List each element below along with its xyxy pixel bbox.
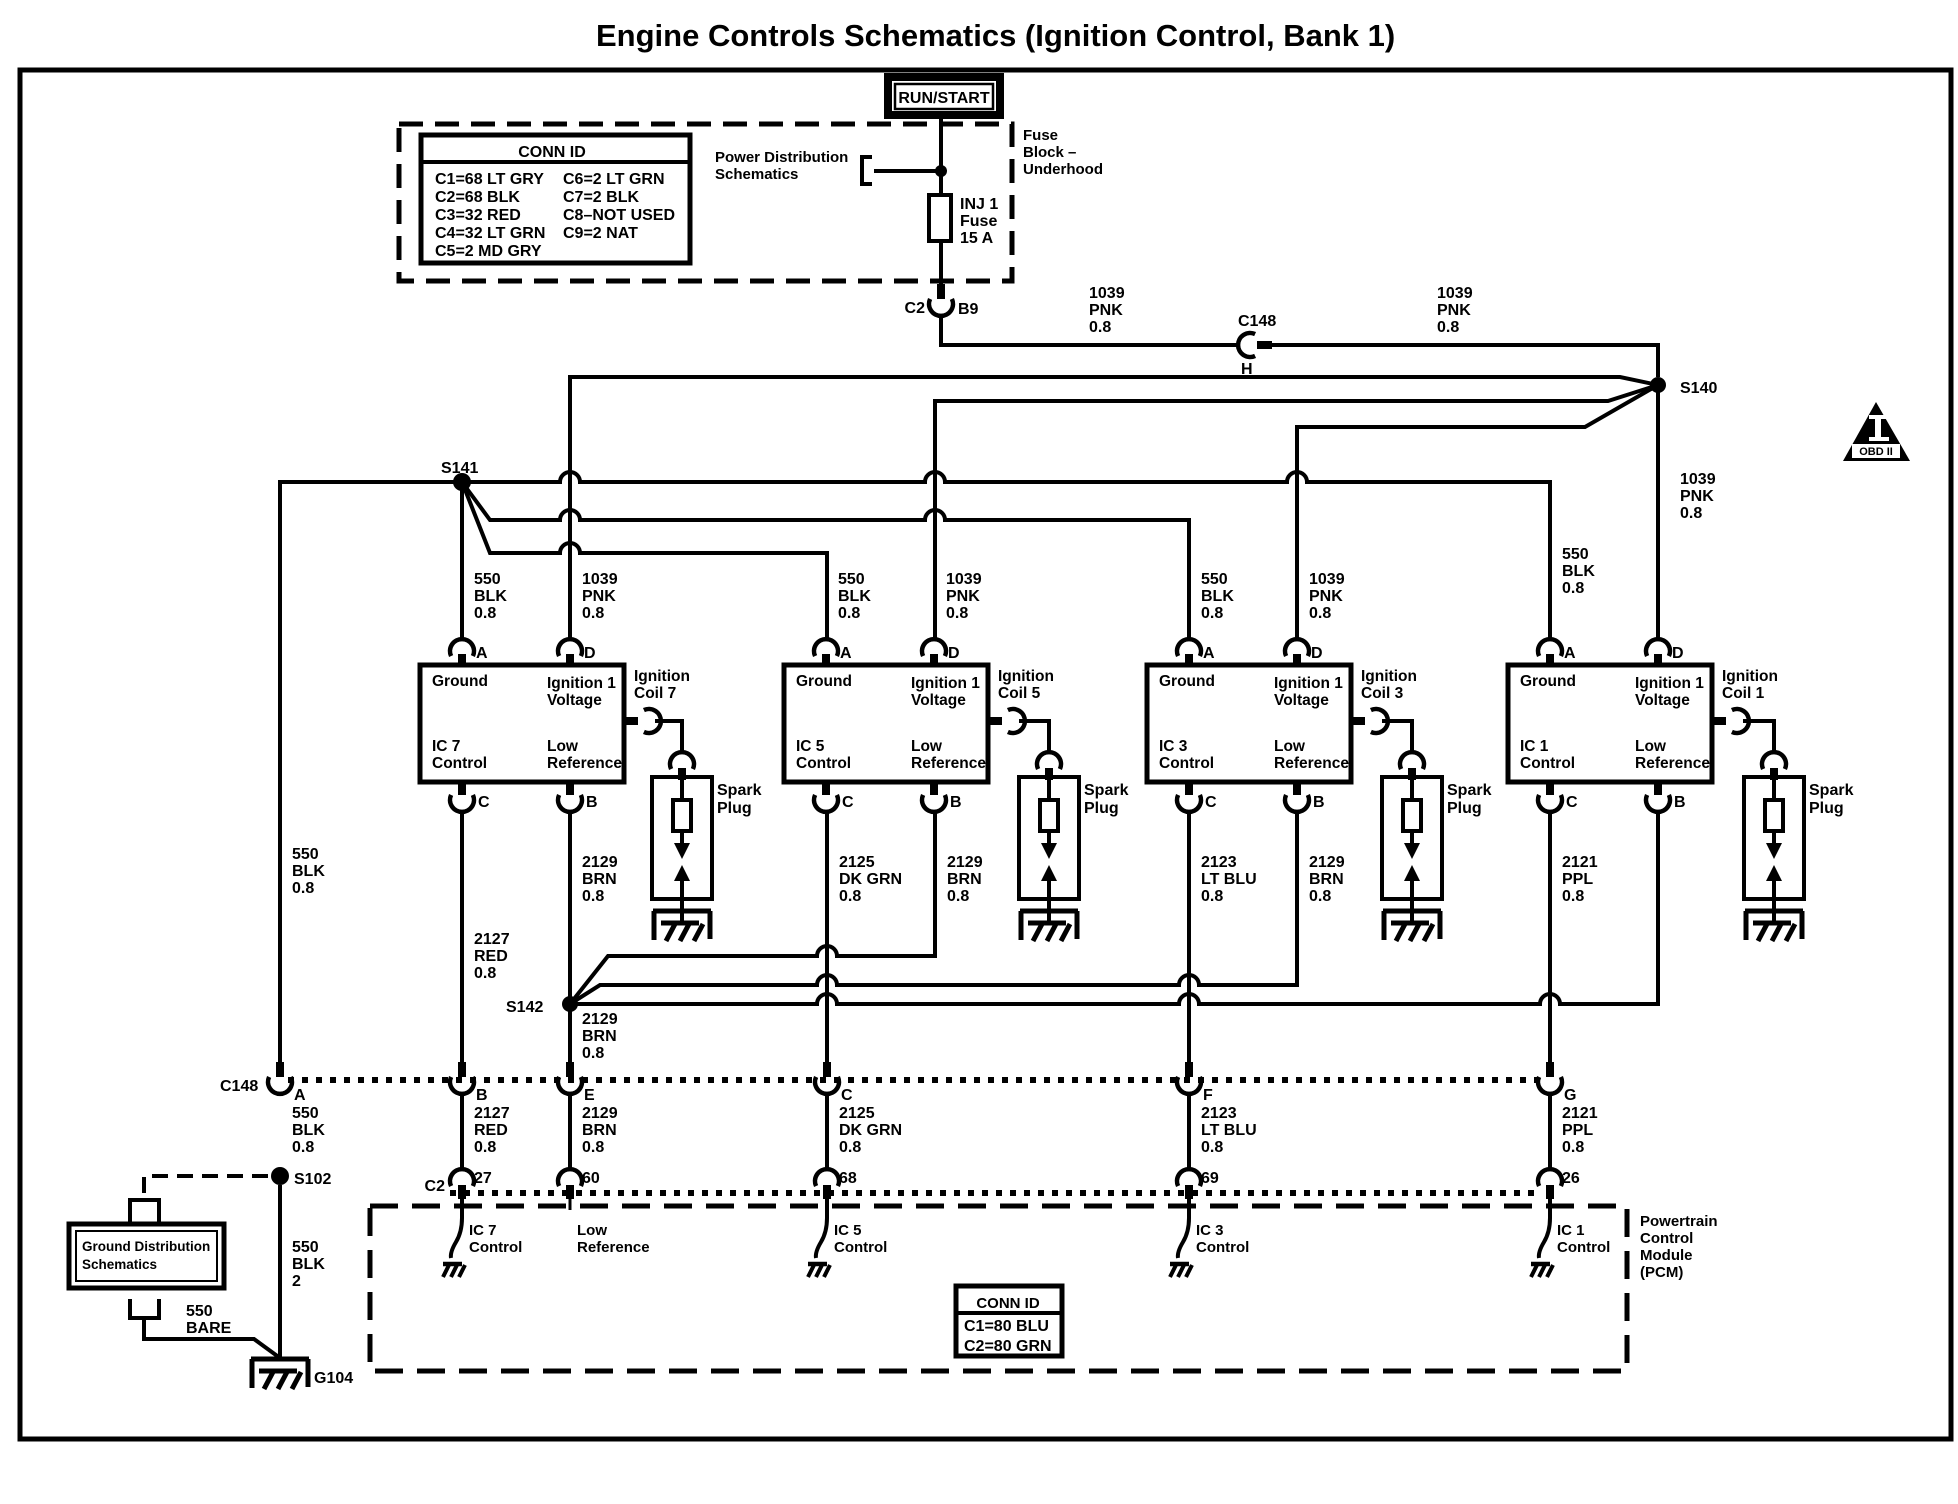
svg-text:0.8: 0.8 <box>474 605 496 622</box>
svg-text:BRN: BRN <box>1309 871 1344 888</box>
svg-text:Plug: Plug <box>1084 800 1119 817</box>
ignition coil module U7 (Ignition Coil 7) <box>420 665 624 782</box>
svg-text:B: B <box>586 794 598 811</box>
ground (spark plug 7) <box>653 911 711 941</box>
svg-text:C2=80 GRN: C2=80 GRN <box>964 1338 1052 1355</box>
svg-text:Reference: Reference <box>577 1239 650 1256</box>
svg-text:Coil 7: Coil 7 <box>634 685 676 702</box>
svg-text:C4=32 LT GRN: C4=32 LT GRN <box>435 225 545 242</box>
PCM pin 68 <box>815 1169 839 1186</box>
svg-text:Schematics: Schematics <box>82 1257 157 1272</box>
svg-text:0.8: 0.8 <box>839 1139 861 1156</box>
ground (IC 5 driver) <box>808 1264 830 1277</box>
svg-text:G: G <box>1564 1087 1576 1104</box>
svg-text:Voltage: Voltage <box>547 692 602 709</box>
svg-text:550: 550 <box>1201 571 1228 588</box>
svg-text:Ignition 1: Ignition 1 <box>1635 675 1704 692</box>
pin C of coil 7 <box>458 782 466 795</box>
wire 2129 BRN coil3 B to S142 <box>570 812 1297 1004</box>
svg-text:C5=2 MD GRY: C5=2 MD GRY <box>435 243 542 260</box>
svg-text:Control: Control <box>1159 755 1214 772</box>
svg-text:2121: 2121 <box>1562 1105 1598 1122</box>
svg-text:C2: C2 <box>905 300 926 317</box>
svg-text:0.8: 0.8 <box>1562 888 1584 905</box>
svg-text:Ignition: Ignition <box>1361 668 1417 685</box>
svg-text:C: C <box>478 794 490 811</box>
svg-text:PNK: PNK <box>1437 302 1471 319</box>
svg-text:Powertrain: Powertrain <box>1640 1213 1718 1230</box>
svg-text:C3=32 RED: C3=32 RED <box>435 207 521 224</box>
svg-text:Voltage: Voltage <box>911 692 966 709</box>
in-line connector C148 pin H <box>1238 333 1255 357</box>
svg-text:G104: G104 <box>314 1370 353 1387</box>
wire 550 BARE to G104 <box>144 1318 280 1358</box>
PCM pin 26 <box>1538 1169 1562 1186</box>
svg-text:PNK: PNK <box>1089 302 1123 319</box>
svg-text:(PCM): (PCM) <box>1640 1264 1683 1281</box>
svg-text:0.8: 0.8 <box>947 888 969 905</box>
svg-text:IC 1: IC 1 <box>1520 738 1549 755</box>
svg-text:Ground: Ground <box>796 673 852 690</box>
svg-text:C1=80 BLU: C1=80 BLU <box>964 1318 1049 1335</box>
svg-text:0.8: 0.8 <box>1437 319 1459 336</box>
svg-text:PNK: PNK <box>582 588 616 605</box>
svg-text:S140: S140 <box>1680 380 1717 397</box>
svg-text:Voltage: Voltage <box>1274 692 1329 709</box>
wire S141 to coil 5 ground <box>462 482 827 639</box>
svg-text:0.8: 0.8 <box>292 880 314 897</box>
svg-text:IC 5: IC 5 <box>796 738 825 755</box>
svg-text:0.8: 0.8 <box>946 605 968 622</box>
svg-text:C: C <box>1566 794 1578 811</box>
connector C148 pin G <box>1546 1062 1554 1077</box>
svg-text:Low: Low <box>1635 738 1667 755</box>
svg-text:IC 7: IC 7 <box>432 738 460 755</box>
connector C2 row of PCM (dotted) <box>450 1190 1538 1196</box>
svg-text:0.8: 0.8 <box>1309 605 1331 622</box>
svg-text:IC 3: IC 3 <box>1196 1222 1224 1239</box>
svg-text:2127: 2127 <box>474 931 510 948</box>
svg-text:0.8: 0.8 <box>582 605 604 622</box>
svg-text:BLK: BLK <box>292 863 325 880</box>
ground (IC 3 driver) <box>1170 1264 1192 1277</box>
wire 2125 DK GRN coil5 C to PCM <box>825 812 829 1062</box>
svg-text:Control: Control <box>432 755 487 772</box>
pin C of coil 3 <box>1185 782 1193 795</box>
svg-text:1039: 1039 <box>946 571 982 588</box>
dashed wire S102 to ground distribution schematics <box>144 1176 268 1198</box>
svg-text:Ignition 1: Ignition 1 <box>547 675 616 692</box>
wire 2129 BRN coil5 B to S142 <box>570 812 935 1004</box>
connector C148 pin F <box>1185 1062 1193 1077</box>
spark plug connector (coil 3) <box>1400 752 1424 769</box>
wire S140 to ignition coil 5 feed <box>935 385 1658 639</box>
svg-text:0.8: 0.8 <box>582 1045 604 1062</box>
svg-text:Reference: Reference <box>1274 755 1349 772</box>
pin B of coil 1 <box>1654 782 1662 795</box>
svg-text:D: D <box>1311 645 1323 662</box>
wire RUN/START to fuse <box>939 119 943 195</box>
svg-text:Coil 5: Coil 5 <box>998 685 1041 702</box>
ignition coil module U1 (Ignition Coil 1) <box>1508 665 1712 782</box>
svg-text:Plug: Plug <box>1447 800 1482 817</box>
svg-text:BLK: BLK <box>292 1122 325 1139</box>
svg-text:Low: Low <box>911 738 943 755</box>
fuse INJ 1 15A <box>929 195 951 241</box>
svg-text:2121: 2121 <box>1562 854 1598 871</box>
spark plug 1 <box>1744 777 1804 899</box>
pin A of coil 3 <box>1177 639 1201 656</box>
wire 2123 LT BLU coil3 C to PCM <box>1187 812 1191 1062</box>
pin B of coil 5 <box>930 782 938 795</box>
svg-text:C148: C148 <box>220 1078 258 1095</box>
svg-text:Module: Module <box>1640 1247 1693 1264</box>
svg-text:CONN ID: CONN ID <box>518 144 586 161</box>
ground (IC 1 driver) <box>1531 1264 1553 1277</box>
svg-text:0.8: 0.8 <box>582 888 604 905</box>
svg-text:A: A <box>1564 645 1576 662</box>
ground (spark plug 1) <box>1745 911 1803 941</box>
svg-text:0.8: 0.8 <box>839 888 861 905</box>
svg-text:Low: Low <box>547 738 579 755</box>
wire 2127 RED coil7 C to PCM <box>460 812 464 1062</box>
bracket to power distribution schematics <box>862 157 872 184</box>
svg-text:550: 550 <box>474 571 501 588</box>
svg-text:Ignition: Ignition <box>998 668 1054 685</box>
wire S141 to coil 1 ground (pin A) <box>462 472 1550 639</box>
coil 1 output connector <box>1712 717 1726 725</box>
pin D of coil 1 <box>1646 639 1670 656</box>
svg-text:C148: C148 <box>1238 313 1276 330</box>
svg-text:0.8: 0.8 <box>1201 1139 1223 1156</box>
svg-text:550: 550 <box>838 571 865 588</box>
ground (spark plug 5) <box>1020 911 1078 941</box>
svg-text:Control: Control <box>1520 755 1575 772</box>
svg-text:Ignition 1: Ignition 1 <box>1274 675 1343 692</box>
svg-text:BLK: BLK <box>292 1256 325 1273</box>
svg-text:LT BLU: LT BLU <box>1201 871 1257 888</box>
svg-text:Ground Distribution: Ground Distribution <box>82 1239 210 1254</box>
svg-text:Ignition 1: Ignition 1 <box>911 675 980 692</box>
svg-text:D: D <box>948 645 960 662</box>
svg-text:Reference: Reference <box>911 755 986 772</box>
svg-text:Ignition: Ignition <box>1722 668 1778 685</box>
svg-text:DK GRN: DK GRN <box>839 1122 902 1139</box>
svg-text:2129: 2129 <box>947 854 983 871</box>
svg-text:A: A <box>476 645 488 662</box>
svg-text:Control: Control <box>1196 1239 1249 1256</box>
Powertrain Control Module (PCM) dashed box <box>370 1206 1627 1371</box>
wire 2121 PPL coil1 C to PCM <box>1548 812 1552 1062</box>
coil 7 output connector <box>624 717 638 725</box>
svg-text:OBD II: OBD II <box>1859 446 1893 458</box>
svg-text:RUN/START: RUN/START <box>898 90 989 107</box>
svg-text:Control: Control <box>1557 1239 1610 1256</box>
svg-text:Low: Low <box>1274 738 1306 755</box>
svg-text:2125: 2125 <box>839 1105 875 1122</box>
wire coil 3 to spark plug <box>1382 721 1412 752</box>
wire 1039 PNK from C148 to S140 <box>1272 345 1658 377</box>
CONN ID table (PCM) <box>956 1286 1062 1356</box>
svg-text:Fuse: Fuse <box>960 213 997 230</box>
wire S141 to coil 7 ground <box>460 482 464 639</box>
svg-text:550: 550 <box>292 846 319 863</box>
svg-text:Spark: Spark <box>1447 782 1492 799</box>
coil 5 output connector <box>988 717 1002 725</box>
svg-text:Plug: Plug <box>1809 800 1844 817</box>
svg-text:Ground: Ground <box>1520 673 1576 690</box>
svg-text:BLK: BLK <box>838 588 871 605</box>
svg-text:Reference: Reference <box>547 755 622 772</box>
svg-text:S102: S102 <box>294 1171 331 1188</box>
svg-text:Ignition: Ignition <box>634 668 690 685</box>
wire coil 5 to spark plug <box>1019 721 1049 752</box>
Low Reference pin stub <box>569 1199 572 1210</box>
connector C148 pin E <box>566 1062 574 1077</box>
bracket to ground distribution schematics <box>130 1200 159 1223</box>
junction node at fuse feed <box>935 165 947 177</box>
svg-text:PNK: PNK <box>1680 488 1714 505</box>
ground G104 <box>251 1359 309 1389</box>
svg-text:0.8: 0.8 <box>292 1139 314 1156</box>
wire S141 to coil 3 ground <box>462 482 1189 639</box>
svg-text:2129: 2129 <box>582 1011 618 1028</box>
pin B of coil 3 <box>1293 782 1301 795</box>
svg-text:C1=68 LT GRY: C1=68 LT GRY <box>435 171 544 188</box>
pin D of coil 5 <box>922 639 946 656</box>
wire 1039 PNK from C2-B9 to C148 <box>941 316 1238 345</box>
wire S140 to ignition coil 3 feed <box>1297 385 1658 639</box>
wire 2129 BRN coil1 B to S142 <box>570 812 1658 1004</box>
svg-text:BRN: BRN <box>582 1028 617 1045</box>
svg-text:27: 27 <box>474 1170 492 1187</box>
svg-text:PNK: PNK <box>946 588 980 605</box>
CONN ID table (fuse block) <box>421 135 690 263</box>
svg-text:IC 5: IC 5 <box>834 1222 862 1239</box>
svg-text:C6=2 LT GRN: C6=2 LT GRN <box>563 171 665 188</box>
svg-text:A: A <box>840 645 852 662</box>
svg-text:RED: RED <box>474 1122 508 1139</box>
svg-text:60: 60 <box>582 1170 600 1187</box>
svg-text:BLK: BLK <box>474 588 507 605</box>
svg-text:26: 26 <box>1562 1170 1580 1187</box>
ground (spark plug 3) <box>1383 911 1441 941</box>
pin C of coil 1 <box>1546 782 1554 795</box>
svg-text:Underhood: Underhood <box>1023 161 1103 178</box>
connector C2/B9 pin <box>937 284 945 299</box>
connector C148 pin C <box>823 1062 831 1077</box>
PCM pin 27 <box>450 1169 474 1186</box>
svg-text:1039: 1039 <box>1309 571 1345 588</box>
pin C of coil 5 <box>822 782 830 795</box>
svg-text:C: C <box>1205 794 1217 811</box>
svg-text:IC 3: IC 3 <box>1159 738 1188 755</box>
wire coil 7 to spark plug <box>655 721 682 752</box>
svg-text:IC 7: IC 7 <box>469 1222 497 1239</box>
connector C148 row (dotted) <box>288 1077 1538 1083</box>
svg-text:Voltage: Voltage <box>1635 692 1690 709</box>
pin B of coil 7 <box>566 782 574 795</box>
svg-text:Spark: Spark <box>717 782 762 799</box>
pin A of coil 1 <box>1538 639 1562 656</box>
spark plug 7 <box>652 777 712 899</box>
Ground Distribution Schematics box <box>69 1224 224 1288</box>
svg-text:2129: 2129 <box>582 854 618 871</box>
svg-text:1039: 1039 <box>1089 285 1125 302</box>
svg-text:2127: 2127 <box>474 1105 510 1122</box>
svg-text:Control: Control <box>796 755 851 772</box>
svg-text:D: D <box>584 645 596 662</box>
svg-text:LT BLU: LT BLU <box>1201 1122 1257 1139</box>
svg-text:Schematics: Schematics <box>715 166 798 183</box>
svg-text:2: 2 <box>292 1273 301 1290</box>
wire S141 left to C148-A <box>280 482 462 1062</box>
svg-text:B: B <box>950 794 962 811</box>
fuse block dashed box (Fuse Block - Underhood) <box>399 124 1012 281</box>
svg-text:Reference: Reference <box>1635 755 1710 772</box>
svg-text:BRN: BRN <box>947 871 982 888</box>
svg-text:2123: 2123 <box>1201 854 1237 871</box>
IC 7 Control driver (transistor switch) <box>451 1199 462 1258</box>
svg-text:68: 68 <box>839 1170 857 1187</box>
wire 550 BLK 2 S102 to G104 <box>278 1185 282 1359</box>
ignition coil module U5 (Ignition Coil 5) <box>784 665 988 782</box>
spark plug connector (coil 5) <box>1037 752 1061 769</box>
wire power distribution branch <box>874 169 941 173</box>
splice S140 <box>1650 377 1666 393</box>
connector C148 pin A <box>276 1062 284 1077</box>
svg-text:BLK: BLK <box>1201 588 1234 605</box>
IC 1 Control driver (transistor switch) <box>1539 1199 1550 1258</box>
svg-text:BRN: BRN <box>582 1122 617 1139</box>
svg-text:Control: Control <box>1640 1230 1693 1247</box>
pin A of coil 7 <box>450 639 474 656</box>
svg-text:S142: S142 <box>506 999 543 1016</box>
IC 3 Control driver (transistor switch) <box>1178 1199 1189 1258</box>
svg-text:2129: 2129 <box>1309 854 1345 871</box>
svg-text:0.8: 0.8 <box>474 1139 496 1156</box>
svg-text:BRN: BRN <box>582 871 617 888</box>
svg-text:0.8: 0.8 <box>1562 1139 1584 1156</box>
svg-text:0.8: 0.8 <box>1680 505 1702 522</box>
wire fuse to connector C2 <box>939 241 943 284</box>
svg-text:0.8: 0.8 <box>1201 888 1223 905</box>
svg-text:1039: 1039 <box>582 571 618 588</box>
svg-text:0.8: 0.8 <box>1089 319 1111 336</box>
svg-text:0.8: 0.8 <box>838 605 860 622</box>
svg-text:CONN ID: CONN ID <box>976 1295 1040 1312</box>
svg-text:Low: Low <box>577 1222 607 1239</box>
bracket below ground distribution schematics <box>130 1299 159 1318</box>
spark plug 5 <box>1019 777 1079 899</box>
svg-text:15 A: 15 A <box>960 230 994 247</box>
svg-text:B: B <box>476 1087 488 1104</box>
svg-text:C7=2 BLK: C7=2 BLK <box>563 189 639 206</box>
ignition coil module U3 (Ignition Coil 3) <box>1147 665 1351 782</box>
svg-text:Ground: Ground <box>1159 673 1215 690</box>
PCM pin 69 <box>1177 1169 1201 1186</box>
svg-text:PPL: PPL <box>1562 1122 1593 1139</box>
pin A of coil 5 <box>814 639 838 656</box>
svg-text:1039: 1039 <box>1437 285 1473 302</box>
wire S140 to ignition coil 7 feed <box>570 377 1658 639</box>
wires C148 row to PCM row <box>460 1094 464 1169</box>
wire 1039 PNK S140 down to coil 1 <box>1656 389 1660 639</box>
svg-text:BLK: BLK <box>1562 563 1595 580</box>
svg-text:Coil 3: Coil 3 <box>1361 685 1404 702</box>
svg-text:B: B <box>1313 794 1325 811</box>
spark plug 3 <box>1382 777 1442 899</box>
svg-text:0.8: 0.8 <box>474 965 496 982</box>
svg-text:Control: Control <box>469 1239 522 1256</box>
svg-text:Engine Controls Schematics (Ig: Engine Controls Schematics (Ignition Con… <box>596 18 1395 53</box>
svg-text:Spark: Spark <box>1809 782 1854 799</box>
spark plug connector (coil 1) <box>1762 752 1786 769</box>
OBD II symbol <box>1843 402 1910 461</box>
svg-text:PNK: PNK <box>1309 588 1343 605</box>
connector C148 pin B <box>458 1062 466 1077</box>
svg-text:Block –: Block – <box>1023 144 1076 161</box>
PCM pin 60 <box>558 1169 582 1186</box>
wire 2129 BRN coil7 B to S142 <box>568 812 572 1062</box>
svg-text:BARE: BARE <box>186 1320 232 1337</box>
svg-text:E: E <box>584 1087 595 1104</box>
svg-text:C: C <box>841 1087 853 1104</box>
svg-text:C2=68 BLK: C2=68 BLK <box>435 189 520 206</box>
svg-text:Coil 1: Coil 1 <box>1722 685 1765 702</box>
svg-text:1039: 1039 <box>1680 471 1716 488</box>
svg-text:F: F <box>1203 1087 1213 1104</box>
pin D of coil 7 <box>558 639 582 656</box>
svg-text:Control: Control <box>834 1239 887 1256</box>
svg-text:D: D <box>1672 645 1684 662</box>
wire coil 1 to spark plug <box>1743 721 1774 752</box>
svg-text:Fuse: Fuse <box>1023 127 1058 144</box>
svg-text:0.8: 0.8 <box>582 1139 604 1156</box>
svg-text:2129: 2129 <box>582 1105 618 1122</box>
ground (IC 7 driver) <box>443 1264 465 1277</box>
svg-text:A: A <box>294 1087 306 1104</box>
svg-text:C2: C2 <box>425 1178 446 1195</box>
coil 3 output connector <box>1351 717 1365 725</box>
spark plug connector (coil 7) <box>670 752 694 769</box>
svg-text:Ground: Ground <box>432 673 488 690</box>
svg-text:INJ 1: INJ 1 <box>960 196 998 213</box>
svg-text:DK GRN: DK GRN <box>839 871 902 888</box>
svg-text:RED: RED <box>474 948 508 965</box>
svg-text:550: 550 <box>1562 546 1589 563</box>
IC 5 Control driver (transistor switch) <box>816 1199 827 1258</box>
svg-text:0.8: 0.8 <box>1201 605 1223 622</box>
svg-text:2125: 2125 <box>839 854 875 871</box>
wire 550 BLK from C148-A down (splice S102) <box>271 1167 289 1185</box>
svg-text:Spark: Spark <box>1084 782 1129 799</box>
svg-text:C: C <box>842 794 854 811</box>
svg-text:C9=2 NAT: C9=2 NAT <box>563 225 638 242</box>
svg-text:B9: B9 <box>958 301 979 318</box>
svg-text:A: A <box>1203 645 1215 662</box>
svg-text:0.8: 0.8 <box>1309 888 1331 905</box>
svg-text:550: 550 <box>292 1105 319 1122</box>
svg-text:550: 550 <box>186 1303 213 1320</box>
svg-text:2123: 2123 <box>1201 1105 1237 1122</box>
svg-text:IC 1: IC 1 <box>1557 1222 1585 1239</box>
svg-text:0.8: 0.8 <box>1562 580 1584 597</box>
svg-text:B: B <box>1674 794 1686 811</box>
RUN/START box <box>884 73 1004 119</box>
pin D of coil 3 <box>1285 639 1309 656</box>
svg-text:Power Distribution: Power Distribution <box>715 149 848 166</box>
